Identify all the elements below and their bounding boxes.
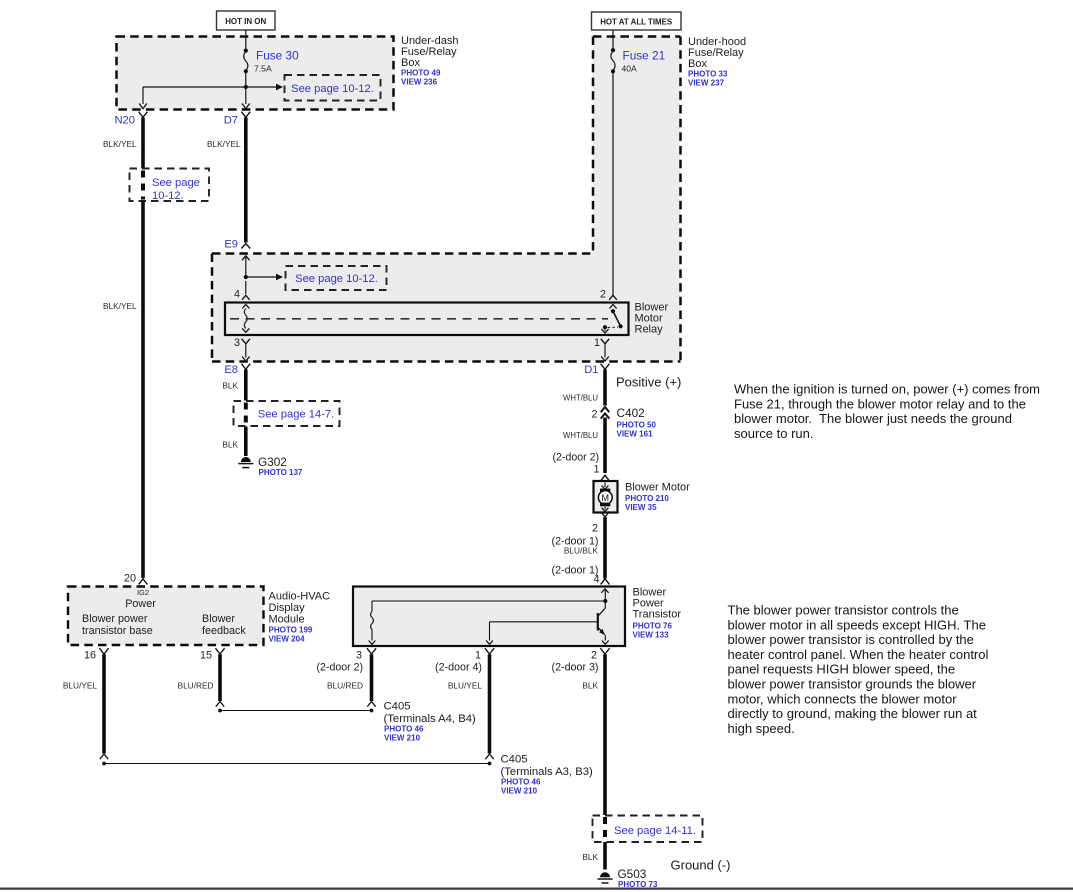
svg-text:3: 3 bbox=[234, 337, 240, 349]
svg-text:blower motor in all speeds exc: blower motor in all speeds except HIGH. … bbox=[728, 617, 986, 632]
svg-text:WHT/BLU: WHT/BLU bbox=[563, 393, 598, 403]
label (2-door 1) lower bbox=[552, 565, 599, 577]
transistor collector feed bbox=[601, 589, 608, 601]
svg-text:Positive (+): Positive (+) bbox=[616, 375, 681, 390]
wire C402 to blower motor bbox=[603, 418, 607, 474]
connector at N20 bbox=[139, 112, 148, 118]
connector C405 link 15-3 bbox=[218, 709, 373, 713]
svg-text:PHOTO 137: PHOTO 137 bbox=[259, 468, 303, 477]
svg-text:Box: Box bbox=[401, 57, 420, 69]
svg-text:VIEW 210: VIEW 210 bbox=[384, 734, 421, 743]
svg-text:Display: Display bbox=[269, 602, 306, 614]
fuse F21 (40A) bbox=[611, 37, 615, 296]
svg-text:blower power transistor is con: blower power transistor is controlled by… bbox=[728, 632, 974, 647]
wire N20 BLK/YEL long run bbox=[141, 201, 145, 578]
svg-text:See page 14-7.: See page 14-7. bbox=[258, 409, 335, 421]
wire label BLK (G302) bbox=[222, 440, 238, 450]
svg-text:The blower power transistor co: The blower power transistor controls the bbox=[728, 603, 959, 618]
svg-text:16: 16 bbox=[84, 650, 96, 662]
svg-text:Fuse 30: Fuse 30 bbox=[256, 49, 299, 63]
pin 2 of power transistor bbox=[591, 648, 610, 661]
label Blower Motor Relay bbox=[635, 302, 669, 336]
blower motor M1 body bbox=[594, 481, 618, 513]
pin 4 of relay bbox=[234, 281, 250, 301]
arrow into D7 bbox=[242, 104, 250, 109]
wire label BLK/YEL (D7) bbox=[207, 139, 241, 149]
pin 1 of blower motor bbox=[593, 464, 609, 481]
label Ground (-) bbox=[671, 858, 731, 873]
svg-text:BLU/YEL: BLU/YEL bbox=[63, 681, 98, 691]
wire label BLU/RED (15) bbox=[178, 681, 214, 691]
svg-text:(2-door 3): (2-door 3) bbox=[552, 662, 599, 674]
svg-text:2: 2 bbox=[591, 409, 597, 421]
label PHOTO 46 VIEW 210 (A3) bbox=[501, 778, 541, 796]
svg-text:IG2: IG2 bbox=[137, 588, 149, 597]
svg-text:BLK: BLK bbox=[222, 440, 238, 450]
svg-text:See page 10-12.: See page 10-12. bbox=[295, 273, 378, 285]
svg-text:PHOTO 49: PHOTO 49 bbox=[401, 69, 441, 78]
wire pin1 BLU/YEL bbox=[485, 654, 493, 759]
svg-text:(2-door 2): (2-door 2) bbox=[553, 452, 600, 464]
node D1 bbox=[584, 364, 598, 376]
node E8 bbox=[224, 364, 238, 376]
svg-text:directly to ground, making the: directly to ground, making the blower ru… bbox=[728, 706, 978, 721]
svg-text:C405: C405 bbox=[501, 754, 528, 766]
see page 14-7 reference box bbox=[234, 401, 340, 426]
svg-text:BLK/YEL: BLK/YEL bbox=[103, 301, 137, 311]
svg-text:E9: E9 bbox=[224, 239, 238, 251]
label Blower Motor bbox=[625, 482, 690, 494]
svg-text:Transistor: Transistor bbox=[633, 609, 682, 621]
svg-text:D7: D7 bbox=[224, 115, 238, 127]
svg-text:heater control panel. When the: heater control panel. When the heater co… bbox=[728, 647, 989, 662]
pin 2 of blower motor bbox=[592, 511, 609, 534]
wire E8 BLK lower bbox=[244, 427, 248, 457]
wire E9 to coil bbox=[245, 256, 247, 277]
svg-text:4: 4 bbox=[593, 574, 599, 586]
svg-text:G302: G302 bbox=[258, 455, 287, 469]
wire N20 through ref box (broken) bbox=[141, 171, 145, 200]
wire label WHT/BLU (upper) bbox=[563, 393, 598, 403]
node N20 bbox=[114, 115, 135, 127]
node D7 bbox=[224, 115, 238, 127]
svg-text:15: 15 bbox=[200, 650, 212, 662]
label C405 terminals A4 B4 bbox=[384, 701, 477, 726]
connector C405 link 16-1 bbox=[102, 762, 491, 766]
svg-text:(2-door 2): (2-door 2) bbox=[317, 662, 364, 674]
svg-text:BLK/YEL: BLK/YEL bbox=[103, 139, 137, 149]
note paragraph 1 bbox=[734, 382, 1040, 441]
label PHOTO 199 VIEW 204 bbox=[269, 626, 313, 644]
svg-text:BLU/RED: BLU/RED bbox=[178, 681, 214, 691]
value label Fuse 21 bbox=[623, 49, 666, 63]
svg-text:Module: Module bbox=[269, 614, 305, 626]
svg-text:1: 1 bbox=[594, 337, 600, 349]
label PHOTO 50 VIEW 161 bbox=[617, 421, 657, 439]
label (2-door 4) pin1 bbox=[435, 662, 482, 674]
node junction E9 bbox=[244, 275, 248, 279]
label Positive (+) bbox=[616, 375, 681, 390]
svg-text:PHOTO 46: PHOTO 46 bbox=[384, 725, 424, 734]
svg-text:VIEW 161: VIEW 161 bbox=[617, 430, 654, 439]
svg-text:When the ignition is turned on: When the ignition is turned on, power (+… bbox=[734, 382, 1040, 397]
value label 7.5A bbox=[254, 64, 272, 74]
wire label BLK (E8) bbox=[222, 381, 238, 391]
svg-text:(2-door 1): (2-door 1) bbox=[552, 565, 599, 577]
label PHOTO 210 VIEW 35 bbox=[625, 494, 669, 512]
svg-text:See page 10-12.: See page 10-12. bbox=[291, 83, 374, 95]
svg-text:M: M bbox=[602, 493, 610, 503]
node collector junction bbox=[603, 599, 607, 603]
blower power transistor Q1 body bbox=[353, 587, 625, 647]
label IG2 Power bbox=[125, 588, 156, 610]
resistor R1 (base-collector) bbox=[369, 601, 606, 644]
wire branch to N20 bbox=[143, 87, 246, 104]
arrow into N20 bbox=[139, 104, 147, 109]
wire pin2 through ref box (broken) bbox=[603, 817, 607, 841]
svg-text:2: 2 bbox=[591, 650, 597, 662]
svg-text:VIEW 237: VIEW 237 bbox=[688, 79, 725, 88]
arrow to see-page ref bbox=[246, 84, 283, 91]
svg-text:PHOTO 33: PHOTO 33 bbox=[688, 70, 728, 79]
svg-text:(2-door 4): (2-door 4) bbox=[435, 662, 482, 674]
svg-text:20: 20 bbox=[124, 573, 136, 585]
pin 20 of module bbox=[124, 573, 147, 585]
see page 10-12 reference box (top) bbox=[285, 75, 381, 101]
wire D1 WHT/BLU bbox=[603, 370, 607, 406]
wire label BLU/BLK bbox=[564, 546, 599, 556]
wire fuse30 to D7 bbox=[245, 87, 247, 104]
label HOT AT ALL TIMES bbox=[592, 12, 682, 30]
svg-text:VIEW 35: VIEW 35 bbox=[625, 503, 657, 512]
svg-text:G503: G503 bbox=[618, 867, 647, 881]
svg-text:Audio-HVAC: Audio-HVAC bbox=[269, 591, 331, 603]
svg-text:N20: N20 bbox=[114, 115, 135, 127]
label (2-door 3) pin2 bbox=[552, 662, 599, 674]
pin 1 of relay bbox=[594, 337, 609, 349]
svg-text:4: 4 bbox=[234, 289, 240, 301]
pin 3 of relay bbox=[234, 337, 250, 349]
svg-text:See page 14-11.: See page 14-11. bbox=[614, 825, 696, 837]
wire pin16 BLU/YEL bbox=[100, 654, 108, 759]
svg-text:BLK: BLK bbox=[582, 681, 598, 691]
wire relay pin3 to E8 bbox=[242, 344, 250, 361]
svg-text:VIEW 236: VIEW 236 bbox=[401, 78, 438, 87]
label Blower Power Transistor bbox=[633, 587, 682, 621]
svg-text:VIEW 133: VIEW 133 bbox=[633, 631, 670, 640]
svg-text:PHOTO 50: PHOTO 50 bbox=[617, 421, 657, 430]
wire from HOT AT ALL TIMES to under-hood box bbox=[612, 30, 614, 37]
svg-text:panel requests HIGH blower spe: panel requests HIGH blower speed, the bbox=[728, 662, 956, 677]
svg-text:Relay: Relay bbox=[635, 324, 664, 336]
wire label WHT/BLU (lower) bbox=[563, 430, 598, 440]
svg-text:BLU/BLK: BLU/BLK bbox=[564, 546, 599, 556]
label G302 bbox=[258, 455, 287, 469]
label Blower feedback bbox=[202, 613, 246, 637]
pin 2 of relay bbox=[600, 289, 617, 301]
relay switch contact bbox=[601, 305, 622, 334]
label (2-door 2) bbox=[553, 452, 600, 464]
label Audio-HVAC Display Module bbox=[269, 591, 331, 626]
svg-text:E8: E8 bbox=[224, 364, 238, 376]
label G503 bbox=[618, 867, 647, 881]
svg-text:PHOTO 199: PHOTO 199 bbox=[269, 626, 313, 635]
svg-text:HOT IN ON: HOT IN ON bbox=[225, 16, 266, 26]
svg-text:PHOTO 76: PHOTO 76 bbox=[633, 622, 673, 631]
node junction below fuse 30 bbox=[244, 85, 248, 89]
wire pin15 BLU/RED bbox=[216, 654, 224, 706]
label Under-hood Fuse/Relay Box bbox=[688, 36, 746, 88]
under-hood fuse/relay box merged with relay box (gray region) bbox=[212, 37, 681, 362]
relay coil bbox=[242, 305, 249, 333]
pin 16 of module bbox=[84, 648, 109, 661]
see page 14-11 reference box bbox=[593, 816, 703, 843]
svg-text:Blower power: Blower power bbox=[82, 613, 148, 625]
wire label BLK/YEL (N20) bbox=[103, 139, 137, 149]
pin 1 of power transistor bbox=[475, 648, 494, 661]
wire pin2 BLK lower bbox=[603, 842, 607, 870]
base wire to pin 1 bbox=[486, 622, 597, 645]
svg-text:high speed.: high speed. bbox=[728, 721, 795, 736]
wire E8 through ref box (broken) bbox=[244, 403, 248, 426]
under-dash fuse/relay box bbox=[117, 37, 394, 110]
svg-text:C405: C405 bbox=[384, 701, 411, 713]
svg-text:10-12.: 10-12. bbox=[152, 190, 184, 202]
ground G503 bbox=[598, 872, 613, 883]
svg-text:Blower: Blower bbox=[202, 613, 235, 625]
audio-HVAC display module body bbox=[68, 587, 264, 646]
svg-text:(Terminals A4, B4): (Terminals A4, B4) bbox=[384, 713, 477, 725]
label Under-dash Fuse/Relay Box bbox=[401, 35, 458, 87]
label HOT IN ON bbox=[217, 11, 276, 30]
svg-text:2: 2 bbox=[592, 523, 598, 535]
label C405 terminals A3 B3 bbox=[501, 754, 594, 779]
svg-text:motor, which connects the blow: motor, which connects the blower motor bbox=[728, 691, 958, 706]
label PHOTO 76 VIEW 133 bbox=[633, 622, 673, 640]
see page 10-12 reference box (relay) bbox=[286, 266, 387, 290]
value label 40A bbox=[622, 64, 638, 74]
wire label BLU/RED (3) bbox=[327, 681, 363, 691]
svg-text:WHT/BLU: WHT/BLU bbox=[563, 430, 598, 440]
label (2-door 2) pin3 bbox=[317, 662, 364, 674]
svg-text:PHOTO 46: PHOTO 46 bbox=[501, 778, 541, 787]
svg-text:blower power transistor ground: blower power transistor grounds the blow… bbox=[728, 677, 977, 692]
svg-text:source to run.: source to run. bbox=[734, 426, 814, 441]
svg-text:See page: See page bbox=[152, 177, 200, 189]
svg-text:blower motor. The blower just: blower motor. The blower just needs the … bbox=[734, 411, 1012, 426]
wire N20 BLK/YEL upper bbox=[141, 118, 145, 170]
pin 4 of power transistor bbox=[593, 574, 609, 586]
label PHOTO 73 bbox=[618, 880, 658, 889]
page bottom rule bbox=[0, 887, 1073, 889]
pin 15 of module bbox=[200, 648, 225, 661]
wire E8 BLK upper bbox=[244, 370, 248, 401]
svg-text:HOT AT ALL TIMES: HOT AT ALL TIMES bbox=[600, 16, 672, 26]
svg-text:PHOTO 210: PHOTO 210 bbox=[625, 494, 669, 503]
value label Fuse 30 bbox=[256, 49, 299, 63]
wire label BLK/YEL (N20 mid) bbox=[103, 301, 137, 311]
arrow to see-page ref (relay) bbox=[246, 274, 283, 281]
wire pin2 BLK upper bbox=[603, 654, 607, 815]
wire pin3 BLU/RED bbox=[367, 654, 375, 706]
connector at D7 bbox=[241, 112, 250, 118]
fuse F30 (7.5A) bbox=[244, 37, 248, 87]
wire label BLK (2) bbox=[582, 681, 598, 691]
wire blower motor to transistor BLU/BLK bbox=[603, 517, 607, 578]
wire label BLK (G503) bbox=[582, 852, 598, 862]
ground G302 bbox=[238, 457, 253, 468]
note paragraph 2 bbox=[728, 603, 989, 736]
svg-text:C402: C402 bbox=[617, 406, 645, 420]
svg-text:BLK: BLK bbox=[222, 381, 238, 391]
svg-text:Fuse 21, through the blower mo: Fuse 21, through the blower motor relay … bbox=[734, 396, 1026, 411]
svg-text:40A: 40A bbox=[622, 64, 638, 74]
label C402 bbox=[617, 406, 645, 420]
svg-text:1: 1 bbox=[475, 650, 481, 662]
svg-text:D1: D1 bbox=[584, 364, 598, 376]
node E9 bbox=[224, 239, 238, 251]
svg-text:Box: Box bbox=[688, 58, 707, 70]
wire D7 BLK/YEL bbox=[244, 118, 248, 243]
svg-text:2: 2 bbox=[600, 289, 606, 301]
wire label BLU/YEL (1) bbox=[448, 681, 483, 691]
svg-text:BLU/YEL: BLU/YEL bbox=[448, 681, 483, 691]
connector C402 bbox=[591, 407, 609, 421]
svg-text:VIEW 210: VIEW 210 bbox=[501, 787, 538, 796]
svg-text:BLK: BLK bbox=[582, 852, 598, 862]
label PHOTO 46 VIEW 210 (A4) bbox=[384, 725, 424, 743]
label Blower power transistor base bbox=[82, 613, 153, 637]
svg-text:BLK/YEL: BLK/YEL bbox=[207, 139, 241, 149]
svg-text:transistor base: transistor base bbox=[82, 625, 153, 637]
wire from HOT IN ON to under-dash box bbox=[245, 30, 247, 37]
svg-text:1: 1 bbox=[593, 464, 599, 476]
svg-text:Fuse 21: Fuse 21 bbox=[623, 49, 666, 63]
svg-text:Power: Power bbox=[125, 598, 156, 610]
label (2-door 1) upper bbox=[552, 536, 599, 548]
svg-text:Ground (-): Ground (-) bbox=[671, 858, 731, 873]
pin 3 of power transistor bbox=[356, 648, 376, 661]
label PHOTO 137 bbox=[259, 468, 303, 477]
blower motor relay K1 body bbox=[225, 303, 629, 336]
svg-text:Blower Motor: Blower Motor bbox=[625, 482, 690, 494]
svg-text:7.5A: 7.5A bbox=[254, 64, 272, 74]
connector at D1 bbox=[601, 364, 610, 370]
svg-text:BLU/RED: BLU/RED bbox=[327, 681, 363, 691]
transistor Q1 symbol bbox=[598, 601, 609, 644]
wire label BLU/YEL (16) bbox=[63, 681, 98, 691]
svg-text:VIEW 204: VIEW 204 bbox=[269, 635, 306, 644]
connector at E9 bbox=[241, 244, 250, 261]
see page 10-12 reference box (left) bbox=[130, 169, 210, 203]
connector at E8 bbox=[241, 364, 250, 370]
wire relay pin1 to D1 bbox=[601, 344, 609, 361]
svg-text:feedback: feedback bbox=[202, 625, 246, 637]
svg-text:(Terminals A3, B3): (Terminals A3, B3) bbox=[501, 766, 594, 778]
svg-text:3: 3 bbox=[356, 650, 362, 662]
